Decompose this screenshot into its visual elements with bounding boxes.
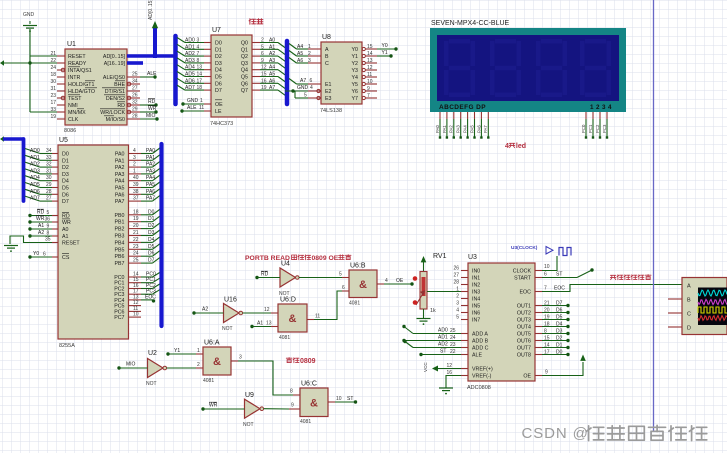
svg-text:U8: U8 xyxy=(322,34,331,41)
svg-text:4: 4 xyxy=(310,85,313,91)
AND gate U6:C xyxy=(300,381,328,426)
svg-text:A: A xyxy=(687,284,691,290)
svg-text:B: B xyxy=(325,54,329,60)
svg-text:24: 24 xyxy=(50,65,56,71)
clock generator symbol U3(CLOCK) xyxy=(511,245,571,256)
svg-text:29: 29 xyxy=(46,182,52,188)
svg-text:LE: LE xyxy=(215,109,222,115)
svg-text:OE: OE xyxy=(523,374,531,380)
svg-text:D1: D1 xyxy=(148,216,155,222)
svg-text:OUT6: OUT6 xyxy=(517,339,531,345)
svg-text:OUT8: OUT8 xyxy=(517,353,531,359)
svg-text:HOLD/GT1: HOLD/GT1 xyxy=(68,82,95,88)
svg-text:19: 19 xyxy=(261,85,267,91)
svg-text:D7: D7 xyxy=(148,258,155,264)
svg-text:28: 28 xyxy=(46,189,52,195)
IC U8 74LS138 body xyxy=(320,34,362,114)
svg-text:17: 17 xyxy=(50,100,56,106)
svg-text:AD3: AD3 xyxy=(185,58,195,64)
U6:D input wire net A1 xyxy=(250,321,278,329)
svg-text:ST: ST xyxy=(440,349,446,355)
bus vertical right of U5 xyxy=(159,144,163,326)
display bottom legends xyxy=(439,104,614,111)
svg-text:4081: 4081 xyxy=(300,419,311,425)
svg-text:D2: D2 xyxy=(62,165,69,171)
net label WR wire xyxy=(140,106,158,114)
svg-text:1: 1 xyxy=(133,168,136,174)
svg-text:Y1: Y1 xyxy=(174,348,180,354)
svg-text:23: 23 xyxy=(133,244,139,250)
U7 LE wire net ALE xyxy=(180,105,211,113)
svg-text:A6: A6 xyxy=(297,58,303,64)
svg-text:AD4: AD4 xyxy=(185,65,195,71)
svg-text:12: 12 xyxy=(261,65,267,71)
svg-text:6: 6 xyxy=(43,252,46,258)
svg-text:27: 27 xyxy=(453,273,459,279)
svg-text:ALE: ALE xyxy=(147,71,157,77)
U5 RD wire xyxy=(28,209,58,217)
wire RV1 wiper to U3 IN3 xyxy=(427,291,461,293)
svg-text:Q5: Q5 xyxy=(241,75,248,81)
U3 OUT wires net D7-D0 xyxy=(535,301,570,357)
svg-text:led: led xyxy=(516,143,526,150)
svg-text:Y6: Y6 xyxy=(352,89,359,95)
svg-text:8255A: 8255A xyxy=(59,343,75,349)
bus AD[0..15] horizontal from U1 xyxy=(127,56,177,63)
svg-text:26: 26 xyxy=(453,266,459,272)
svg-text:AD4: AD4 xyxy=(30,175,40,181)
svg-text:Y0: Y0 xyxy=(352,47,359,53)
svg-text:RD: RD xyxy=(37,210,45,216)
svg-text:WR: WR xyxy=(36,216,45,222)
svg-text:Q0: Q0 xyxy=(241,41,248,47)
svg-text:29: 29 xyxy=(132,107,138,113)
svg-text:ST: ST xyxy=(556,272,562,278)
U6:C output wire net ST xyxy=(328,396,357,404)
svg-text:IN6: IN6 xyxy=(472,311,480,317)
svg-text:D0: D0 xyxy=(148,209,155,215)
svg-text:D7: D7 xyxy=(62,199,69,205)
svg-text:MIO: MIO xyxy=(146,113,156,119)
svg-text:3: 3 xyxy=(456,301,459,307)
svg-text:PA7: PA7 xyxy=(115,199,125,205)
svg-text:Q3: Q3 xyxy=(241,61,248,67)
svg-text:13: 13 xyxy=(266,321,272,327)
U5 WR wire xyxy=(28,216,58,224)
svg-text:D3: D3 xyxy=(556,329,563,335)
svg-text:5: 5 xyxy=(261,44,264,50)
NOT gate U4 xyxy=(279,261,299,298)
svg-text:NOT: NOT xyxy=(243,422,254,428)
svg-text:INTA/QS1: INTA/QS1 xyxy=(68,68,92,74)
svg-text:PB1: PB1 xyxy=(114,220,124,226)
U6:D output wire to U6:B xyxy=(307,285,349,320)
svg-text:CLK: CLK xyxy=(68,117,79,123)
svg-text:35: 35 xyxy=(45,237,51,243)
svg-text:A0: A0 xyxy=(62,227,69,233)
U5 CS wire net Y0 xyxy=(28,251,58,259)
svg-text:Y5: Y5 xyxy=(352,82,359,88)
svg-text:IN1: IN1 xyxy=(472,276,480,282)
bus vertical between U7 and U8 xyxy=(285,41,290,104)
U2 output wire xyxy=(167,362,203,368)
annotation PORTB READ xyxy=(245,255,351,262)
svg-text:PA0: PA0 xyxy=(146,148,155,154)
U3 VREF+ wire to VCC arrow xyxy=(423,362,468,372)
svg-text:OE: OE xyxy=(215,102,223,108)
U16 output wire xyxy=(243,307,278,313)
svg-text:1: 1 xyxy=(197,348,200,354)
svg-text:Q6: Q6 xyxy=(241,81,248,87)
svg-text:MN/MX: MN/MX xyxy=(68,110,86,116)
svg-text:B: B xyxy=(687,298,691,304)
U3 ADD C wire net AD2 xyxy=(403,340,468,348)
svg-text:Y3: Y3 xyxy=(352,68,359,74)
U3 IN stubs xyxy=(453,266,468,321)
display pins PC0-PC3 xyxy=(581,112,608,139)
svg-text:PA5: PA5 xyxy=(115,186,125,192)
svg-text:NOT: NOT xyxy=(222,326,233,332)
svg-text:38: 38 xyxy=(133,189,139,195)
svg-text:16: 16 xyxy=(261,78,267,84)
svg-text:4: 4 xyxy=(505,143,509,150)
svg-text:EOC: EOC xyxy=(145,294,156,300)
U4 output wire xyxy=(299,272,349,278)
wire net Y0 xyxy=(377,43,398,51)
svg-text:5: 5 xyxy=(304,93,307,99)
svg-text:34: 34 xyxy=(46,148,52,154)
svg-text:CSDN @: CSDN @ xyxy=(522,425,589,442)
svg-text:WR: WR xyxy=(209,403,218,409)
U3 VREF- wire to ground xyxy=(446,370,468,388)
svg-text:PA1: PA1 xyxy=(442,125,447,133)
svg-text:D3: D3 xyxy=(215,61,222,67)
svg-text:A7: A7 xyxy=(300,78,306,84)
oscilloscope screen with waveforms xyxy=(698,288,727,326)
svg-text:PORTB READ: PORTB READ xyxy=(245,255,290,262)
svg-text:15: 15 xyxy=(261,72,267,78)
svg-text:7: 7 xyxy=(367,93,370,99)
svg-text:A4: A4 xyxy=(297,44,303,50)
U5 PC4 wire net EOC xyxy=(129,294,157,302)
svg-text:AD0: AD0 xyxy=(438,328,448,334)
svg-text:15: 15 xyxy=(544,336,550,342)
svg-text:6: 6 xyxy=(310,78,313,84)
svg-text:10: 10 xyxy=(133,312,139,318)
svg-text:4: 4 xyxy=(133,148,136,154)
svg-text:9: 9 xyxy=(261,58,264,64)
svg-text:16: 16 xyxy=(446,370,452,376)
svg-text:RV1: RV1 xyxy=(433,253,447,260)
svg-text:2: 2 xyxy=(133,162,136,168)
svg-text:ALE: ALE xyxy=(472,353,482,359)
svg-text:25: 25 xyxy=(132,72,138,78)
svg-text:20: 20 xyxy=(544,308,550,314)
svg-text:36: 36 xyxy=(45,217,51,223)
U1 right pin stubs xyxy=(127,72,140,120)
svg-text:A[16..19]: A[16..19] xyxy=(104,61,126,67)
U3 EOC wire to oscilloscope xyxy=(535,285,682,292)
U2 input wire net MIO xyxy=(117,362,147,370)
svg-text:EOC: EOC xyxy=(554,286,565,292)
U3 ALE wire net ST xyxy=(419,349,468,357)
U3 START wire net ST with switch xyxy=(535,268,594,277)
svg-text:30: 30 xyxy=(46,175,52,181)
svg-text:&: & xyxy=(359,279,367,291)
svg-text:1k: 1k xyxy=(430,308,436,314)
svg-text:11: 11 xyxy=(367,72,372,78)
net label MIO wire xyxy=(140,113,159,121)
bus terminal AD[0..15] vertical with up arrow xyxy=(148,0,158,58)
svg-text:ALE/QS0: ALE/QS0 xyxy=(103,75,125,81)
svg-text:PA0: PA0 xyxy=(115,152,125,158)
svg-text:ABCDEFG DP: ABCDEFG DP xyxy=(439,104,486,111)
svg-text:D3: D3 xyxy=(148,230,155,236)
svg-text:5: 5 xyxy=(47,210,50,216)
svg-text:PA4: PA4 xyxy=(146,175,155,181)
svg-text:M/IO/S0: M/IO/S0 xyxy=(106,117,125,123)
svg-text:A2: A2 xyxy=(38,230,44,236)
svg-text:BHE: BHE xyxy=(114,82,125,88)
wire GND to U1 RESET/READY/MNMX xyxy=(30,29,57,112)
svg-text:Y0: Y0 xyxy=(33,251,39,257)
svg-text:5: 5 xyxy=(456,315,459,321)
svg-text:ADD B: ADD B xyxy=(472,339,489,345)
svg-text:12: 12 xyxy=(446,363,452,369)
svg-text:U3(CLOCK): U3(CLOCK) xyxy=(511,245,538,251)
svg-text:CLOCK: CLOCK xyxy=(513,269,532,275)
svg-text:PC2: PC2 xyxy=(595,124,600,133)
svg-text:21: 21 xyxy=(544,301,550,307)
svg-text:U6:D: U6:D xyxy=(280,297,296,304)
svg-text:1234: 1234 xyxy=(590,104,614,111)
svg-text:PB3: PB3 xyxy=(114,234,124,240)
svg-text:C: C xyxy=(325,61,329,67)
bus into U5 data pins with left terminal arrow xyxy=(0,136,24,201)
svg-text:IN2: IN2 xyxy=(472,283,480,289)
svg-text:19: 19 xyxy=(544,315,550,321)
svg-text:PB5: PB5 xyxy=(114,247,124,253)
U7 output wires A0-A7 to bus xyxy=(252,38,286,96)
potentiometer RV1 xyxy=(416,253,447,318)
RV1 terminal dots xyxy=(413,276,418,305)
svg-text:OUT1: OUT1 xyxy=(517,304,531,310)
svg-text:PA3: PA3 xyxy=(146,168,155,174)
svg-text:10: 10 xyxy=(544,264,550,270)
watermark CSDN xyxy=(522,425,707,442)
U8 E3 wire xyxy=(295,91,321,100)
svg-text:11: 11 xyxy=(315,314,320,320)
svg-text:3: 3 xyxy=(197,38,200,44)
svg-text:ALE: ALE xyxy=(187,105,197,111)
svg-text:40: 40 xyxy=(133,175,139,181)
svg-text:READY: READY xyxy=(68,61,87,67)
svg-text:39: 39 xyxy=(133,182,139,188)
svg-text:PA7: PA7 xyxy=(483,125,488,133)
svg-text:18: 18 xyxy=(197,85,203,91)
svg-text:30: 30 xyxy=(50,79,56,85)
svg-text:CS: CS xyxy=(62,255,70,261)
svg-text:OUT7: OUT7 xyxy=(517,346,531,352)
svg-text:1: 1 xyxy=(456,287,459,293)
svg-text:AD0: AD0 xyxy=(30,148,40,154)
AND gate U6:A xyxy=(203,340,231,385)
svg-text:9: 9 xyxy=(367,86,370,92)
page divider line xyxy=(653,0,655,432)
svg-text:AD6: AD6 xyxy=(185,78,195,84)
svg-text:D5: D5 xyxy=(215,75,222,81)
svg-text:OUT5: OUT5 xyxy=(517,332,531,338)
svg-text:PB6: PB6 xyxy=(114,254,124,260)
svg-text:9: 9 xyxy=(291,403,294,409)
svg-text:23: 23 xyxy=(450,342,456,348)
oscilloscope body xyxy=(668,278,727,335)
svg-text:VCC: VCC xyxy=(423,362,428,372)
svg-text:PA3: PA3 xyxy=(115,172,125,178)
RV1 ground xyxy=(417,319,431,326)
net label ALE wire xyxy=(140,71,157,79)
U3 ADD B wire net AD1 xyxy=(402,335,468,343)
svg-text:Y2: Y2 xyxy=(352,61,359,67)
svg-text:18: 18 xyxy=(133,209,139,215)
svg-text:0809 OE: 0809 OE xyxy=(312,255,339,262)
svg-text:D6: D6 xyxy=(215,81,222,87)
svg-text:A5: A5 xyxy=(269,72,275,78)
svg-text:AD2: AD2 xyxy=(438,342,448,348)
U8 E1 wire net A7 xyxy=(289,78,321,84)
svg-text:Q2: Q2 xyxy=(241,54,248,60)
svg-text:A7: A7 xyxy=(269,85,275,91)
svg-text:OUT4: OUT4 xyxy=(517,325,531,331)
svg-text:Y1: Y1 xyxy=(382,50,388,56)
AND gate U6:D xyxy=(278,297,307,342)
U8 E2 wire net GND with junction xyxy=(285,85,321,93)
svg-text:OE: OE xyxy=(396,278,404,284)
svg-text:GND: GND xyxy=(187,98,199,104)
svg-text:11: 11 xyxy=(199,105,204,111)
svg-text:U5: U5 xyxy=(59,137,68,144)
svg-text:13: 13 xyxy=(197,65,203,71)
svg-text:0809: 0809 xyxy=(300,358,316,365)
svg-text:WR: WR xyxy=(148,106,157,112)
svg-text:2: 2 xyxy=(261,38,264,44)
svg-text:&: & xyxy=(289,313,297,325)
svg-text:28: 28 xyxy=(132,114,138,120)
svg-text:13: 13 xyxy=(367,58,373,64)
svg-text:D5: D5 xyxy=(148,244,155,250)
svg-text:PA4: PA4 xyxy=(463,125,468,133)
NOT gate U16 xyxy=(222,297,243,333)
ground symbol left of U5 xyxy=(4,246,18,253)
NOT gate U9 xyxy=(243,392,264,428)
net label RD wire xyxy=(140,99,158,107)
svg-text:IN3: IN3 xyxy=(472,290,480,296)
svg-text:D2: D2 xyxy=(556,336,563,342)
svg-text:12: 12 xyxy=(264,307,270,313)
svg-text:AD1: AD1 xyxy=(185,44,195,50)
svg-text:PA4: PA4 xyxy=(115,179,125,185)
svg-text:DT/R/S1: DT/R/S1 xyxy=(105,89,125,95)
svg-text:D4: D4 xyxy=(148,237,155,243)
svg-text:RESET: RESET xyxy=(62,241,80,247)
svg-text:8086: 8086 xyxy=(64,128,76,134)
U9 output wire xyxy=(264,403,300,410)
svg-text:2: 2 xyxy=(456,294,459,300)
svg-text:VREF(-): VREF(-) xyxy=(472,374,492,380)
svg-text:A2: A2 xyxy=(202,307,208,313)
svg-text:A2: A2 xyxy=(269,51,275,57)
IC U7 74HC373 body xyxy=(210,27,252,127)
svg-text:PC7: PC7 xyxy=(114,315,124,321)
svg-text:U9: U9 xyxy=(245,392,254,399)
svg-text:AD5: AD5 xyxy=(185,72,195,78)
U5 PC taps to bus xyxy=(129,272,161,295)
U8 input wires A4 A5 A6 from bus xyxy=(289,44,321,65)
svg-text:D7: D7 xyxy=(556,301,563,307)
svg-text:PC1: PC1 xyxy=(588,124,593,133)
svg-text:AD7: AD7 xyxy=(185,85,195,91)
svg-text:21: 21 xyxy=(133,230,139,236)
U16 input wire net A2 xyxy=(192,307,223,315)
svg-text:A5: A5 xyxy=(297,51,303,57)
svg-text:INTR: INTR xyxy=(68,75,81,81)
svg-text:32: 32 xyxy=(132,100,138,106)
svg-text:7: 7 xyxy=(197,51,200,57)
svg-text:3: 3 xyxy=(308,58,311,64)
svg-text:PC0: PC0 xyxy=(581,124,586,133)
svg-text:A1: A1 xyxy=(62,234,69,240)
svg-text:IN4: IN4 xyxy=(472,297,480,303)
svg-text:4: 4 xyxy=(456,308,459,314)
svg-text:U3: U3 xyxy=(468,254,477,261)
svg-text:E1: E1 xyxy=(325,82,332,88)
svg-text:4081: 4081 xyxy=(349,301,360,307)
svg-text:Y4: Y4 xyxy=(352,75,359,81)
svg-text:18: 18 xyxy=(544,322,550,328)
U1 pin names xyxy=(68,54,126,123)
display digit 8 segments x4 xyxy=(444,39,611,97)
svg-text:22: 22 xyxy=(133,237,139,243)
svg-text:AD[0..15]: AD[0..15] xyxy=(103,54,126,60)
svg-text:U2: U2 xyxy=(148,350,157,357)
svg-text:4: 4 xyxy=(197,44,200,50)
display SEVEN-MPX4-CC-BLUE xyxy=(430,20,626,112)
svg-text:C: C xyxy=(687,312,691,318)
svg-text:Y7: Y7 xyxy=(352,96,359,102)
svg-text:17: 17 xyxy=(197,78,203,84)
svg-text:AD2: AD2 xyxy=(30,162,40,168)
ground symbol below VREF- xyxy=(439,388,453,395)
svg-text:PA5: PA5 xyxy=(146,182,155,188)
svg-text:Q4: Q4 xyxy=(241,68,248,74)
svg-text:4: 4 xyxy=(385,278,388,284)
svg-text:6: 6 xyxy=(544,272,547,278)
svg-text:U6:C: U6:C xyxy=(301,381,317,388)
svg-text:7: 7 xyxy=(544,286,547,292)
U6:A output wire to U6:C xyxy=(231,355,300,396)
display pins PA0-PA7 xyxy=(435,112,490,139)
svg-text:D5: D5 xyxy=(556,315,563,321)
svg-text:37: 37 xyxy=(133,196,139,202)
svg-text:6: 6 xyxy=(261,51,264,57)
svg-text:D5: D5 xyxy=(62,186,69,192)
svg-text:2: 2 xyxy=(308,51,311,57)
annotation 观测转换信号 xyxy=(610,275,651,280)
svg-text:U1: U1 xyxy=(67,41,76,48)
svg-text:10: 10 xyxy=(367,79,373,85)
svg-text:D4: D4 xyxy=(556,322,563,328)
svg-text:&: & xyxy=(213,356,221,368)
